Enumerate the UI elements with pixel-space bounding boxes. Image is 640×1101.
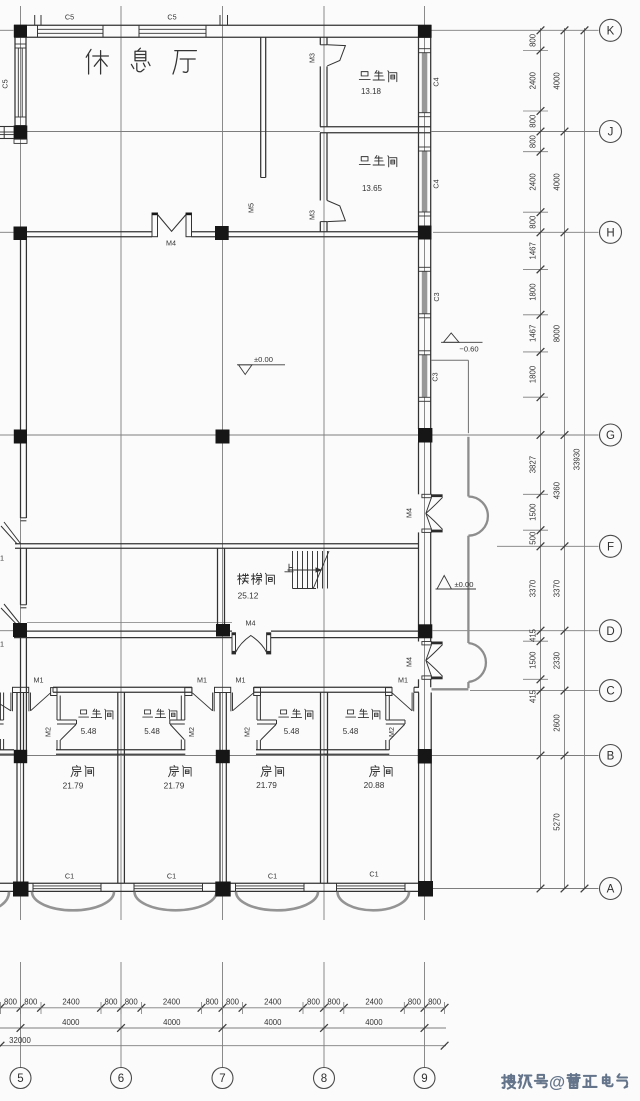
- svg-text:D: D: [606, 626, 614, 638]
- svg-text:1467: 1467: [529, 242, 538, 259]
- svg-text:5.48: 5.48: [343, 727, 359, 736]
- svg-text:3370: 3370: [529, 579, 538, 597]
- svg-text:C: C: [606, 686, 614, 698]
- svg-text:M3: M3: [308, 53, 317, 63]
- svg-text:1500: 1500: [529, 503, 538, 521]
- svg-text:H: H: [606, 227, 614, 239]
- svg-text:20.88: 20.88: [364, 780, 385, 790]
- svg-text:5.48: 5.48: [144, 727, 160, 736]
- svg-text:2400: 2400: [529, 71, 538, 89]
- svg-text:M2: M2: [243, 727, 252, 737]
- svg-text:A: A: [607, 884, 615, 896]
- svg-text:800: 800: [529, 33, 538, 47]
- svg-text:M1: M1: [0, 554, 4, 563]
- svg-text:C1: C1: [167, 872, 176, 881]
- svg-text:1500: 1500: [529, 651, 538, 669]
- svg-text:C1: C1: [65, 872, 74, 881]
- svg-text:415: 415: [529, 628, 538, 642]
- svg-text:M5: M5: [247, 203, 256, 213]
- svg-text:M1: M1: [236, 676, 246, 685]
- svg-text:M1: M1: [197, 676, 207, 685]
- svg-text:800: 800: [205, 998, 219, 1007]
- svg-text:13.18: 13.18: [361, 87, 382, 96]
- svg-text:C5: C5: [1, 79, 10, 88]
- svg-text:J: J: [608, 127, 614, 139]
- svg-text:M2: M2: [187, 727, 196, 737]
- svg-text:K: K: [607, 25, 615, 37]
- svg-text:800: 800: [125, 998, 139, 1007]
- svg-text:800: 800: [4, 998, 18, 1007]
- svg-text:M1: M1: [0, 640, 4, 649]
- svg-text:3827: 3827: [529, 456, 538, 473]
- svg-text:M4: M4: [405, 508, 414, 518]
- svg-text:2400: 2400: [62, 998, 80, 1007]
- svg-text:@: @: [549, 1074, 565, 1092]
- svg-text:M1: M1: [34, 676, 44, 685]
- svg-text:G: G: [606, 430, 615, 442]
- svg-text:800: 800: [226, 998, 240, 1007]
- svg-text:9: 9: [421, 1073, 427, 1085]
- svg-text:800: 800: [327, 998, 341, 1007]
- svg-text:4360: 4360: [553, 481, 562, 499]
- svg-text:4000: 4000: [264, 1018, 282, 1027]
- svg-text:−0.60: −0.60: [459, 345, 478, 354]
- svg-text:M4: M4: [166, 239, 176, 248]
- svg-text:13.65: 13.65: [362, 184, 383, 193]
- svg-text:M1: M1: [398, 676, 408, 685]
- svg-text:32000: 32000: [9, 1036, 31, 1045]
- svg-text:±0.00: ±0.00: [455, 580, 474, 589]
- svg-text:800: 800: [529, 134, 538, 148]
- svg-text:4000: 4000: [163, 1018, 181, 1027]
- svg-text:2330: 2330: [553, 651, 562, 669]
- svg-text:7: 7: [219, 1073, 225, 1085]
- svg-text:1467: 1467: [529, 325, 538, 342]
- svg-text:5.48: 5.48: [81, 727, 97, 736]
- svg-text:C1: C1: [369, 870, 378, 879]
- svg-text:±0.00: ±0.00: [254, 355, 273, 364]
- svg-text:5: 5: [17, 1073, 23, 1085]
- svg-text:2600: 2600: [553, 714, 562, 732]
- svg-text:C5: C5: [167, 13, 176, 22]
- svg-text:415: 415: [529, 689, 538, 703]
- svg-text:800: 800: [307, 998, 321, 1007]
- svg-text:21.79: 21.79: [63, 781, 84, 791]
- svg-text:1800: 1800: [529, 365, 538, 383]
- svg-text:2400: 2400: [365, 998, 383, 1007]
- svg-text:M3: M3: [308, 210, 317, 220]
- svg-text:M2: M2: [44, 727, 53, 737]
- svg-text:2400: 2400: [529, 173, 538, 191]
- svg-text:3370: 3370: [553, 579, 562, 597]
- svg-text:C4: C4: [432, 77, 441, 86]
- svg-text:C3: C3: [431, 372, 440, 381]
- svg-text:1800: 1800: [529, 283, 538, 301]
- svg-text:M4: M4: [246, 619, 256, 628]
- svg-text:4000: 4000: [553, 173, 562, 191]
- svg-text:5270: 5270: [553, 813, 562, 831]
- svg-text:4000: 4000: [553, 72, 562, 90]
- svg-text:800: 800: [428, 998, 442, 1007]
- svg-text:4000: 4000: [62, 1018, 80, 1027]
- svg-text:21.79: 21.79: [164, 781, 185, 791]
- svg-text:2400: 2400: [163, 998, 181, 1007]
- svg-text:C3: C3: [432, 292, 441, 301]
- svg-text:800: 800: [104, 998, 118, 1007]
- svg-text:25.12: 25.12: [238, 591, 259, 601]
- svg-text:M4: M4: [405, 657, 414, 667]
- svg-text:5.48: 5.48: [284, 727, 300, 736]
- svg-text:M2: M2: [387, 727, 396, 737]
- svg-text:2400: 2400: [264, 998, 282, 1007]
- svg-text:21.79: 21.79: [256, 780, 277, 790]
- svg-text:C5: C5: [65, 13, 74, 22]
- svg-text:6: 6: [118, 1073, 124, 1085]
- svg-text:F: F: [607, 541, 614, 553]
- svg-text:8: 8: [321, 1073, 327, 1085]
- svg-text:800: 800: [24, 998, 38, 1007]
- svg-text:C4: C4: [432, 179, 441, 188]
- svg-text:800: 800: [529, 114, 538, 128]
- svg-text:B: B: [607, 751, 615, 763]
- svg-text:4000: 4000: [365, 1018, 383, 1027]
- svg-text:8000: 8000: [553, 324, 562, 342]
- svg-text:800: 800: [529, 215, 538, 229]
- svg-text:C1: C1: [268, 872, 277, 881]
- svg-text:500: 500: [529, 531, 538, 545]
- svg-text:800: 800: [408, 998, 422, 1007]
- svg-text:33930: 33930: [573, 448, 582, 470]
